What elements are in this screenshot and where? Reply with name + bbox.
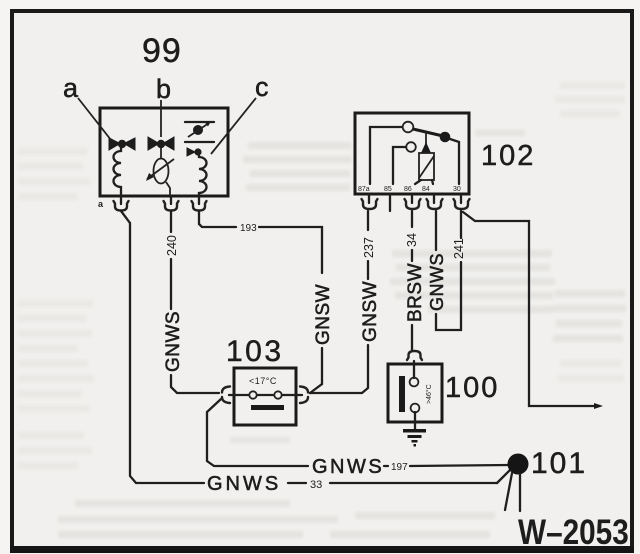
svg-text:99: 99 [142, 32, 182, 70]
svg-text:a: a [63, 73, 79, 103]
wire GNWS 197 from 103 to ground point 101 [207, 399, 509, 466]
connector under 99 pin 2 [164, 196, 179, 211]
103 contacts [229, 391, 302, 398]
wire label GNWS (jumper) [427, 253, 447, 311]
relay pin number 86 [404, 186, 412, 193]
wire label GNWS (240 wire) [163, 311, 184, 372]
wire from 99 pin a down left side [121, 211, 511, 483]
svg-text:30: 30 [453, 186, 461, 193]
temperature switch 100 box [388, 364, 442, 422]
wire number 33 [310, 479, 322, 491]
wire label GNWS (197 wire) [312, 456, 384, 478]
103 left connector bracket [222, 387, 230, 404]
label 100 [445, 372, 499, 404]
wire from relay pin 4 to off-page arrow [463, 212, 603, 409]
svg-text:GNSW: GNSW [360, 281, 381, 342]
svg-text:101: 101 [531, 447, 587, 480]
connector under 102 pin 1 [362, 194, 378, 209]
wire label GNSW (193 wire) [313, 284, 334, 345]
relay coil with actuator arrow [415, 131, 434, 184]
solenoid valve b (inside 99) [146, 137, 174, 196]
svg-text:197: 197 [391, 462, 408, 473]
pin label b [156, 74, 171, 104]
relay pin number 30 [453, 186, 461, 193]
connector under 102 pin 4 [454, 194, 470, 209]
ground distribution point 101 [508, 454, 529, 475]
temperature switch 103 box [234, 368, 296, 425]
wire label BRSW [405, 263, 426, 322]
svg-text:34: 34 [405, 233, 419, 247]
wire number 193 [240, 223, 257, 234]
wire label GNSW (237 wire) [360, 281, 381, 342]
103 temperature bar [251, 405, 284, 410]
wire number 240 [165, 235, 179, 256]
wire number 241 [452, 238, 466, 259]
relay pin stub (no wire) [389, 194, 391, 211]
svg-text:193: 193 [240, 223, 257, 234]
wire number 197 [391, 462, 408, 473]
connector above 100 [407, 351, 422, 360]
svg-text:c: c [255, 72, 269, 102]
svg-text:BRSW: BRSW [405, 263, 426, 322]
100 contacts [410, 361, 420, 429]
wire GNWS jumper from relay pin 3 [436, 211, 461, 330]
leader line c [211, 98, 256, 154]
wire 193 GNSW from 99 pin c to 103 [199, 211, 322, 393]
svg-text:100: 100 [445, 372, 499, 404]
control unit 99 box [100, 108, 228, 196]
103 temperature marking [249, 376, 277, 386]
svg-text:33: 33 [310, 479, 322, 491]
svg-text:86: 86 [404, 186, 412, 193]
pin label a [63, 73, 79, 103]
wire label GNWS (33 wire) [207, 473, 281, 495]
relay contact 30 branch [450, 139, 459, 184]
svg-text:<17°C: <17°C [249, 376, 277, 386]
svg-text:GNWS: GNWS [163, 311, 184, 372]
svg-text:GNWS: GNWS [312, 456, 384, 478]
svg-text:GNWS: GNWS [207, 473, 281, 495]
100 thick bar [399, 376, 405, 412]
ground point leads [505, 473, 520, 511]
relay pin number 85 [384, 186, 392, 193]
wire 34 BRSW from relay to 100 [411, 211, 413, 350]
connector under 99 pin 1 [114, 196, 129, 211]
drawing number W-2053 [518, 513, 629, 552]
relay contact 87 branch [393, 142, 416, 184]
relay pin number 84 [422, 186, 430, 193]
svg-text:87a: 87a [358, 186, 370, 193]
svg-text:b: b [156, 74, 171, 104]
label 101 [531, 447, 587, 480]
relay switch arm [413, 129, 450, 142]
svg-text:84: 84 [422, 186, 430, 193]
103 right connector bracket [300, 387, 308, 404]
svg-text:102: 102 [481, 140, 535, 172]
relay internal contact 87a branch [370, 122, 413, 184]
svg-text:241: 241 [452, 238, 466, 259]
ground symbol under 100 [403, 429, 426, 447]
relay 102 box [355, 113, 469, 194]
svg-text:W–2053: W–2053 [518, 513, 629, 552]
wire number 34 [405, 233, 419, 247]
GHOST-BLEEDTHROUGH (decorative) [18, 82, 626, 538]
solenoid valve a (inside 99) [109, 138, 135, 196]
leader line b [160, 100, 162, 137]
label 102 [481, 140, 535, 172]
svg-text:237: 237 [362, 237, 376, 258]
100 temperature marking [425, 384, 433, 404]
svg-text:GNSW: GNSW [313, 284, 334, 345]
wire 237 GNSW from relay to 103 [310, 211, 368, 393]
connector under 99 pin 3 [192, 196, 207, 211]
svg-text:>46°C: >46°C [425, 384, 433, 404]
relay pin number 87a [358, 186, 370, 193]
pin mark a on 99 [98, 199, 104, 209]
svg-text:103: 103 [226, 335, 284, 368]
wire 240 GNWS from 99 pin b to 103 [171, 211, 219, 393]
wire number 237 [362, 237, 376, 258]
label 99 [142, 32, 182, 70]
connector under 102 pin 2 [405, 194, 421, 209]
wire 241 upper segment [460, 211, 462, 238]
svg-text:240: 240 [165, 235, 179, 256]
svg-text:GNWS: GNWS [427, 253, 447, 311]
valve/switch c (inside 99) [185, 121, 214, 196]
pin label c [255, 72, 269, 102]
connector under 102 pin 3 [427, 194, 443, 209]
label 103 [226, 335, 284, 368]
leader line a [78, 98, 111, 140]
svg-text:85: 85 [384, 186, 392, 193]
